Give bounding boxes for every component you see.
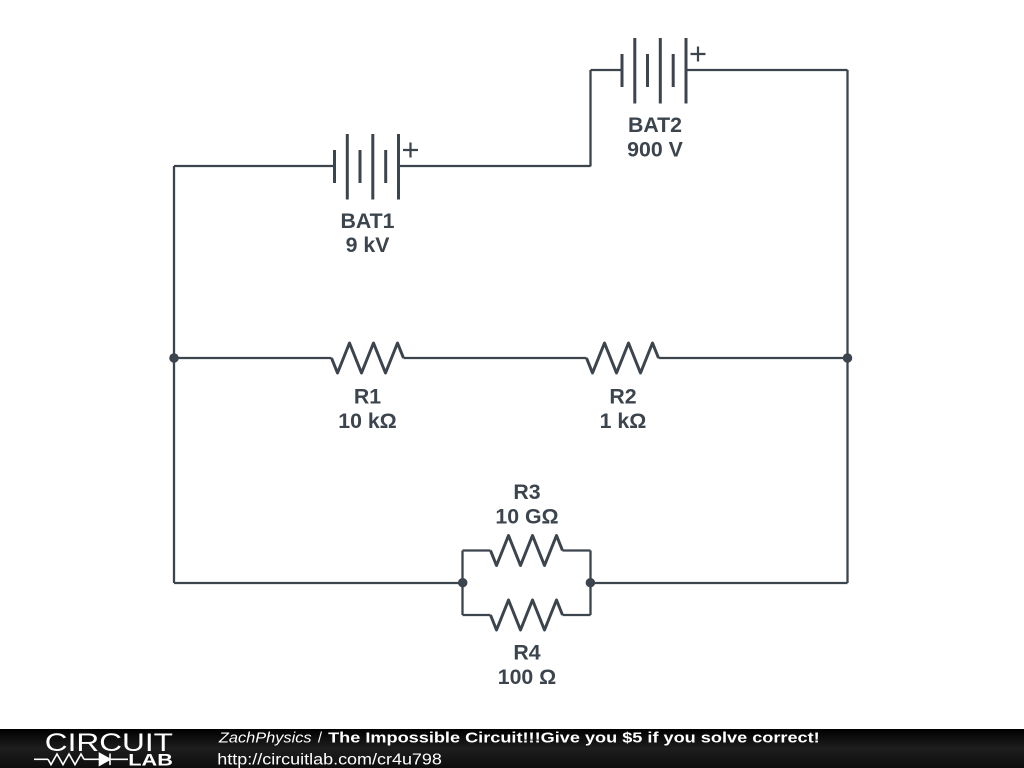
logo mini resistor xyxy=(48,754,84,765)
svg-text:R3: R3 xyxy=(513,480,540,504)
wire: R3 top-branch leads xyxy=(463,549,591,551)
svg-text:BAT1: BAT1 xyxy=(340,209,394,233)
resistor R1 xyxy=(332,343,404,373)
wire: middle row between R1 and R2 xyxy=(404,357,587,359)
svg-text:LAB: LAB xyxy=(128,751,173,768)
svg-text:100 Ω: 100 Ω xyxy=(498,665,557,689)
wire: left vertical (node A rail) xyxy=(173,166,175,583)
svg-text:9 kV: 9 kV xyxy=(346,233,391,257)
resistor R4 xyxy=(491,600,563,630)
wire: bottom row left of parallel block xyxy=(174,582,463,584)
resistor R3 xyxy=(491,536,563,566)
svg-text:R1: R1 xyxy=(354,385,381,409)
wire: middle row right of R2 xyxy=(659,357,848,359)
wire: riser between BAT1 and BAT2 xyxy=(589,70,591,166)
battery BAT1 xyxy=(335,134,399,200)
svg-text:BAT2: BAT2 xyxy=(628,113,682,137)
logo mini schematic: wire xyxy=(34,754,128,766)
wire: BAT1 right lead to riser xyxy=(399,165,591,167)
wire: R4 bottom-branch leads xyxy=(463,614,591,616)
wire: bottom row right of parallel block xyxy=(591,582,848,584)
wire: right vertical rail xyxy=(846,70,848,583)
logo mini wire after diode xyxy=(110,758,128,760)
wire: BAT2 left lead xyxy=(591,69,623,71)
node: junction dot left rail / middle row xyxy=(169,353,179,363)
svg-text:ZachPhysics: ZachPhysics xyxy=(218,730,312,747)
wire: middle row left of R1 xyxy=(174,357,332,359)
svg-text:10 kΩ: 10 kΩ xyxy=(338,409,397,433)
svg-text:1 kΩ: 1 kΩ xyxy=(600,409,647,433)
wire: parallel block right vertical xyxy=(589,551,591,616)
logo mini diode xyxy=(100,754,111,766)
wire: BAT1 left lead xyxy=(174,165,335,167)
wire: BAT2 right lead xyxy=(686,69,848,71)
svg-text:http://circuitlab.com/cr4u798: http://circuitlab.com/cr4u798 xyxy=(217,751,442,768)
node: junction dot right rail / middle row xyxy=(843,353,853,363)
battery BAT2 xyxy=(622,38,686,104)
logo mini wire to diode xyxy=(84,758,99,760)
resistor R2 xyxy=(587,343,659,373)
BAT2 plus sign xyxy=(691,47,706,62)
BAT1 plus sign xyxy=(403,143,418,158)
svg-text:R4: R4 xyxy=(513,641,540,665)
svg-text:R2: R2 xyxy=(609,385,636,409)
svg-text:The Impossible Circuit!!!Give: The Impossible Circuit!!!Give you $5 if … xyxy=(328,730,820,747)
svg-text:900 V: 900 V xyxy=(627,138,683,162)
svg-text:10 GΩ: 10 GΩ xyxy=(495,505,558,529)
node: junction dot parallel block right xyxy=(586,578,596,588)
wire: parallel block left vertical xyxy=(461,551,463,616)
node: junction dot parallel block left xyxy=(458,578,468,588)
